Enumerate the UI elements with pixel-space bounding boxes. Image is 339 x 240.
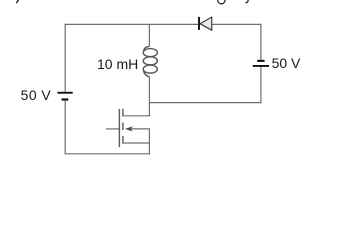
wire: bottom horizontal: [65, 153, 150, 155]
battery V2 long plate (+): [253, 65, 269, 67]
wire: top horizontal, left segment (to diode cathode): [65, 23, 199, 25]
cropped text descender stroke (top-left): [17, 0, 19, 3]
cropped text descender hook (top-middle-right): [246, 0, 249, 3]
wire: left vertical upper (corner to battery V1 top plate): [64, 24, 66, 92]
MOSFET Q1 source/body vertical to bottom wire: [148, 129, 150, 155]
diode D1 cathode bar: [198, 17, 200, 30]
svg-text:50 V: 50 V: [21, 87, 52, 103]
diode D1 triangle (pointing left): [200, 17, 212, 30]
MOSFET Q1 gate lead wire: [106, 128, 120, 130]
cropped text descender bowl of g (top-middle): [218, 0, 226, 4]
inductor L1 coil (3 loops): [143, 46, 157, 76]
MOSFET Q1 channel dash (body): [122, 123, 124, 131]
MOSFET Q1 drain stub: [123, 115, 150, 117]
MOSFET Q1 gate plate: [118, 109, 120, 147]
wire: right vertical upper (corner to battery V2): [260, 24, 262, 60]
MOSFET Q1 channel dash (source): [122, 136, 124, 144]
MOSFET Q1 body arrow: [125, 126, 133, 131]
wire: inductor branch top (top wire to coil): [148, 25, 150, 47]
MOSFET Q1 source stub: [123, 142, 150, 144]
wire: right vertical lower (battery V2 to mid wire): [260, 67, 262, 103]
svg-text:10 mH: 10 mH: [97, 56, 138, 72]
battery V1 short plate (-): [62, 98, 69, 100]
wire: top horizontal, right segment (diode anode to right corner): [212, 23, 261, 25]
MOSFET Q1 body stub: [129, 128, 151, 130]
wire: left vertical lower (battery V1 to bottom wire): [64, 101, 66, 155]
wire: inductor bottom to MOSFET drain level: [148, 77, 150, 116]
battery V2 short plate (-): [257, 60, 264, 62]
svg-text:50 V: 50 V: [272, 55, 301, 71]
battery V1 long plate (+): [57, 92, 72, 94]
wire: mid horizontal (node between inductor, diode branch and battery V2): [150, 102, 262, 104]
MOSFET Q1 channel dash (drain): [122, 109, 124, 117]
